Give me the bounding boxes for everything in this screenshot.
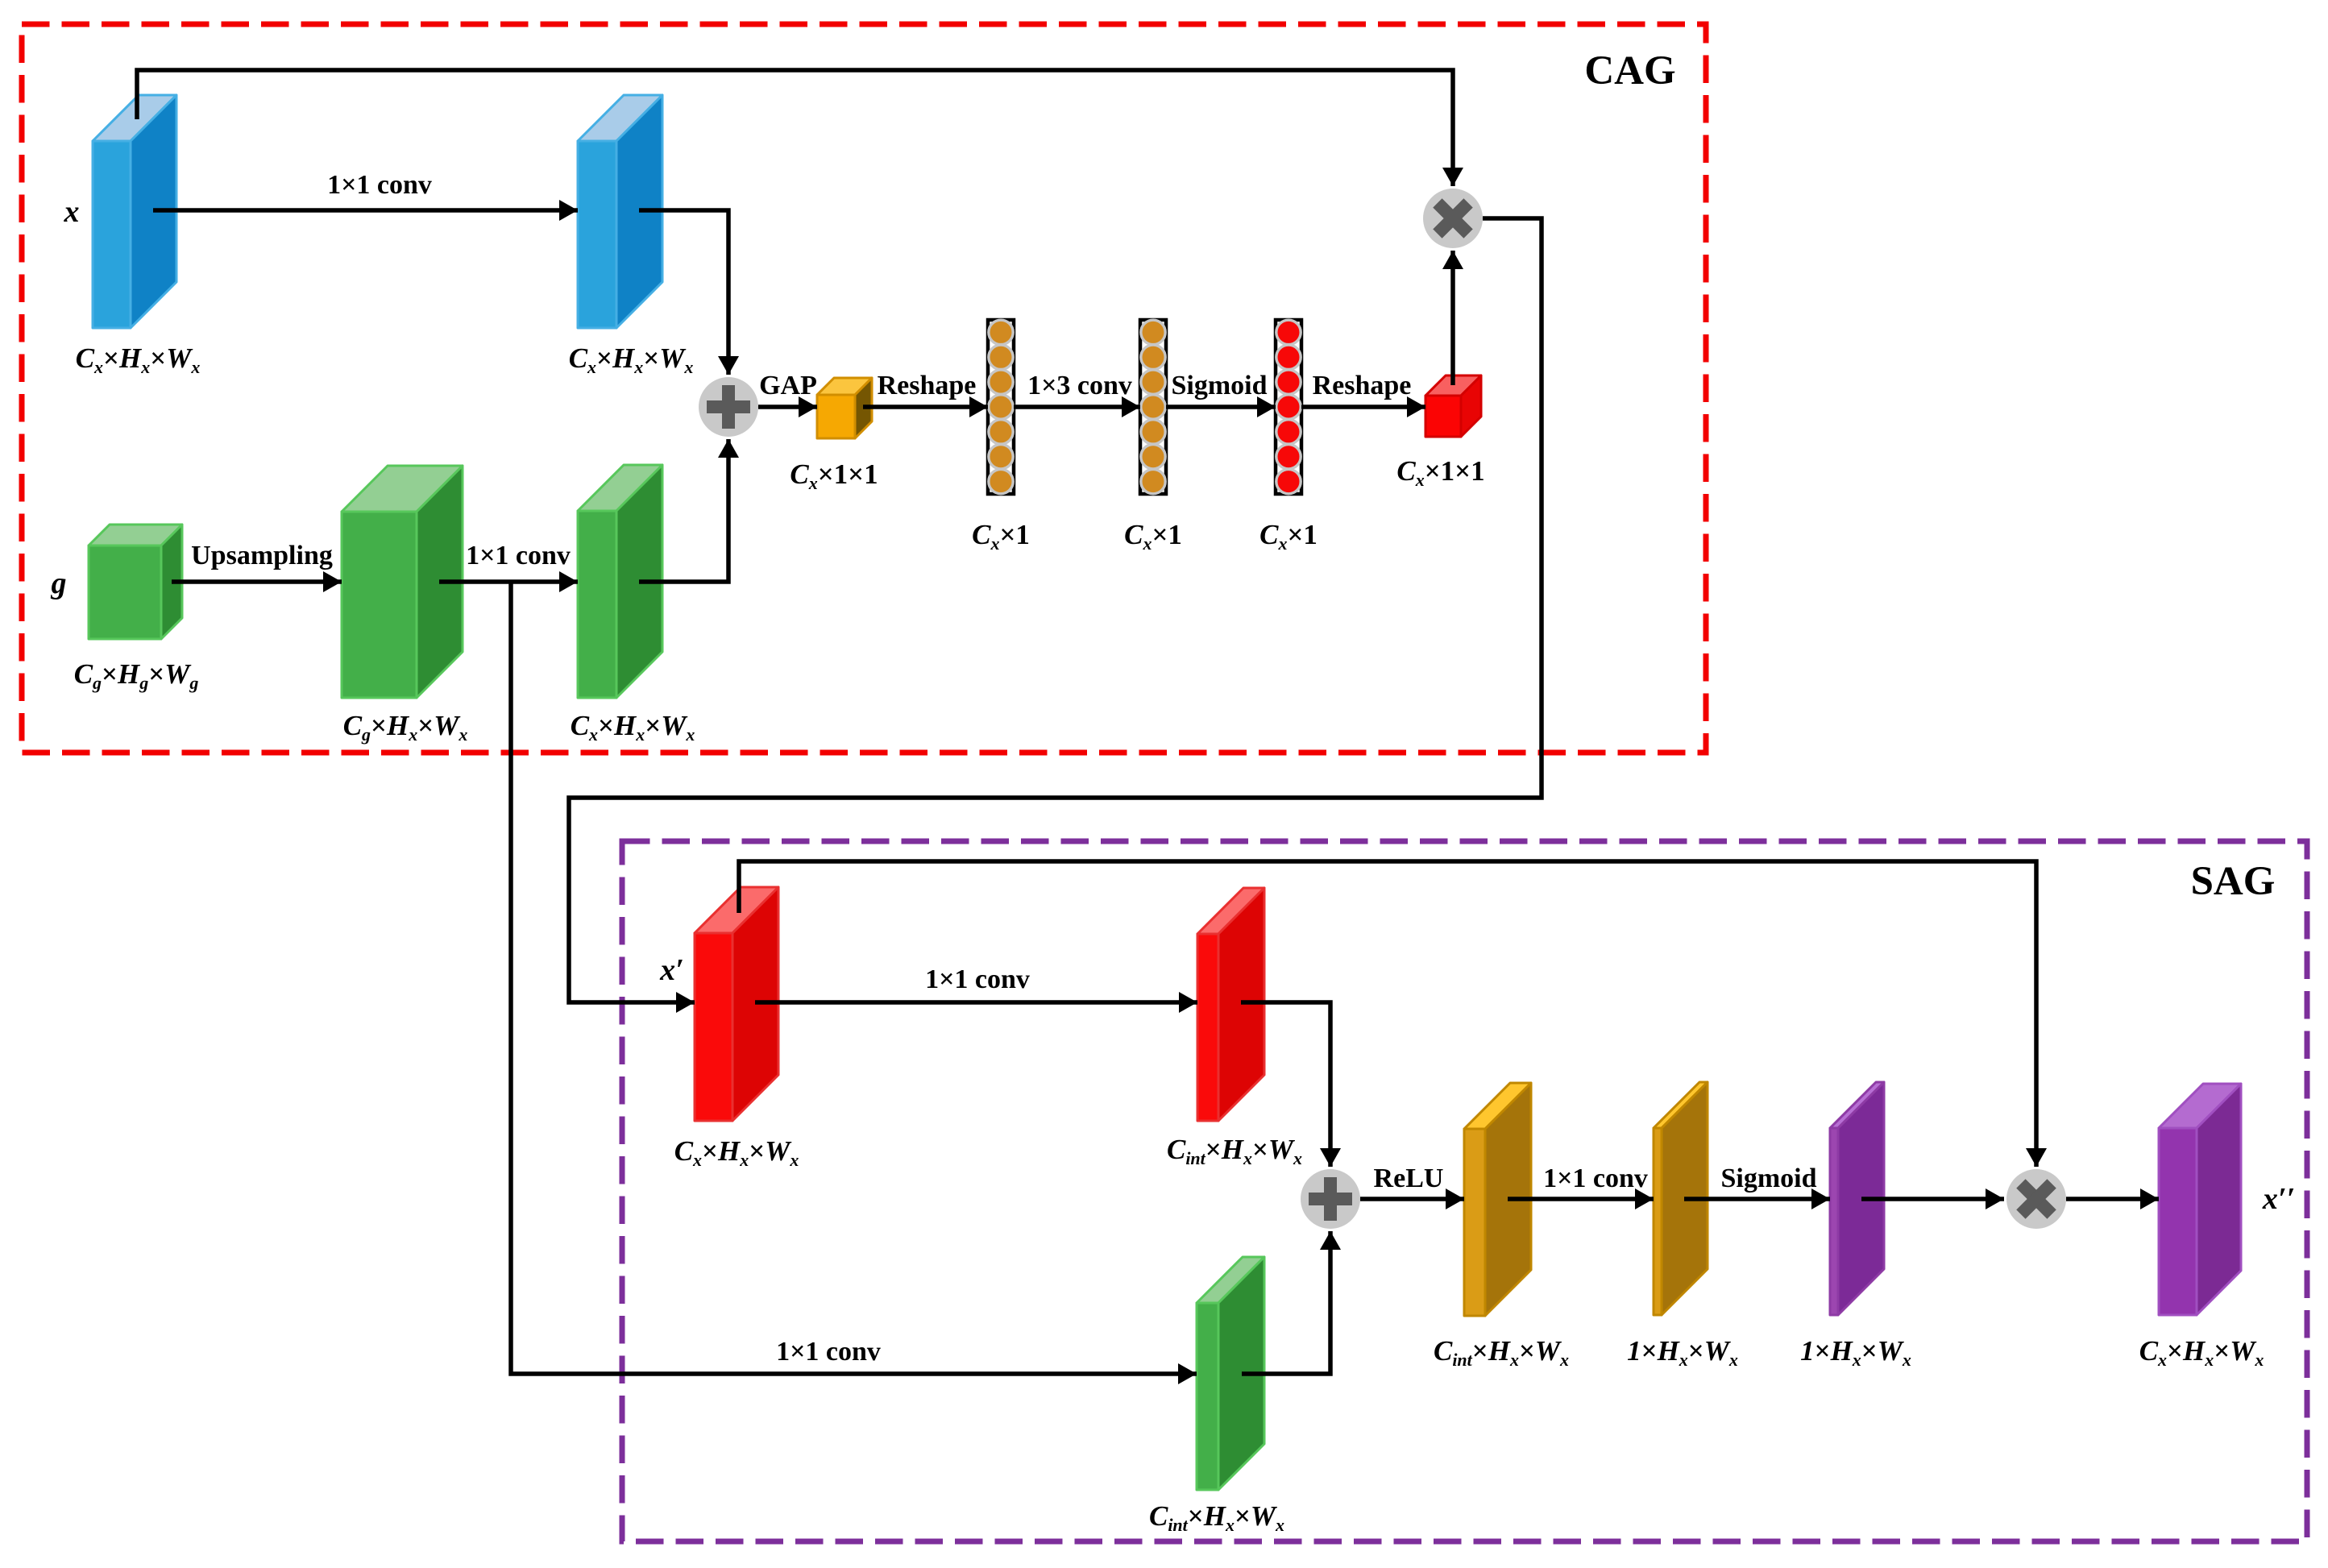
svg-text:1×1 conv: 1×1 conv (327, 170, 432, 200)
svg-text:1×1 conv: 1×1 conv (925, 964, 1030, 994)
tensor x'' (purple, Cx×Hx×Wx) (2159, 1084, 2241, 1315)
wire branch to SAG lower 1×1 conv (511, 582, 1197, 1374)
arrow x' 1×1 conv (755, 1000, 1197, 1005)
svg-text:Cx​×Hx​×Wx​: Cx​×Hx​×Wx​ (569, 342, 694, 377)
svg-text:Sigmoid: Sigmoid (1720, 1164, 1816, 1193)
arrow SAG multiply to x'' (2066, 1197, 2159, 1201)
arrow Reshape 2 (1301, 404, 1425, 409)
green slab Cint×Hx×Wx (SAG) (1197, 1257, 1264, 1490)
arrow Reshape 1 (863, 404, 988, 409)
svg-text:Cg​×Hg​×Wg​: Cg​×Hg​×Wg​ (74, 658, 199, 693)
SAG add junction (+) (1301, 1169, 1360, 1229)
svg-text:Reshape: Reshape (878, 371, 977, 400)
svg-text:GAP: GAP (759, 371, 817, 400)
svg-text:Cx​×1: Cx​×1 (1124, 519, 1182, 554)
wire green Cint slab to SAG add (1242, 1231, 1330, 1374)
svg-text:Cx​×Hx​×Wx​: Cx​×Hx​×Wx​ (674, 1135, 799, 1170)
wire blue slab to CAG add (639, 210, 728, 375)
arrow g Upsampling (172, 579, 342, 584)
green slab Cx×Hx×Wx (after 1×1 conv) (578, 465, 662, 698)
gold slab 1×Hx×Wx (1654, 1082, 1708, 1315)
svg-text:Cx​×1: Cx​×1 (1259, 519, 1318, 554)
svg-text:Reshape: Reshape (1313, 371, 1412, 400)
red cube Cx×1×1 (channel weights) (1425, 375, 1481, 437)
svg-text:1×1 conv: 1×1 conv (466, 541, 571, 570)
arrow Sigmoid (CAG) (1166, 404, 1276, 409)
svg-text:SAG: SAG (2191, 859, 2276, 904)
SAG multiply junction (×) (2006, 1168, 2067, 1230)
blue slab Cx×Hx×Wx (after 1×1 conv) (578, 95, 662, 328)
wire red cube to CAG multiply (1450, 251, 1455, 385)
svg-text:x′′: x′′ (2262, 1182, 2295, 1216)
wire CAG multiply output to x' (569, 218, 1542, 1002)
svg-text:CAG: CAG (1584, 48, 1675, 93)
CAG dashed boundary box (22, 24, 1706, 753)
gold cube Cx×1×1 (GAP output) (817, 378, 872, 438)
svg-text:1×1 conv: 1×1 conv (776, 1337, 881, 1367)
svg-text:1×3 conv: 1×3 conv (1027, 371, 1132, 400)
svg-text:Cx​×1×1: Cx​×1×1 (790, 458, 878, 493)
tensor x' (red, Cx×Hx×Wx) (695, 887, 778, 1121)
arrow 1×1 conv (SAG attention) (1508, 1197, 1654, 1201)
svg-text:1×1 conv: 1×1 conv (1543, 1164, 1648, 1193)
red slab Cint×Hx×Wx (1197, 888, 1264, 1121)
vector Cx×1 (red dots) (1276, 320, 1301, 494)
tensor g (green cube, Cg×Hg×Wg) (89, 525, 182, 639)
SAG dashed boundary box (622, 841, 2307, 1541)
CAG add junction (+) (699, 377, 758, 437)
vector Cx×1 (gold dots 2) (1140, 320, 1166, 494)
wire x-top to CAG multiply (137, 70, 1453, 186)
svg-text:x: x (64, 195, 80, 229)
tensor x (blue, Cx×Hx×Wx) (93, 95, 176, 328)
arrow GAP (758, 404, 817, 409)
svg-text:Cx​×Hx​×Wx​: Cx​×Hx​×Wx​ (76, 342, 201, 377)
arrow ReLU (1360, 1197, 1464, 1201)
wire green slab to CAG add (639, 439, 728, 582)
svg-text:Cx​×1×1: Cx​×1×1 (1396, 455, 1484, 490)
arrow x to 1×1 conv blue slab (153, 208, 578, 213)
svg-text:Cx​×1: Cx​×1 (972, 519, 1030, 554)
green tensor Cg×Hx×Wx (upsampled) (342, 466, 463, 698)
wire red Cint slab to SAG add (1241, 1002, 1330, 1167)
arrow Sigmoid (SAG) (1684, 1197, 1830, 1201)
svg-text:Cx​×Hx​×Wx​: Cx​×Hx​×Wx​ (571, 710, 695, 745)
wire purple slab to SAG multiply (1861, 1197, 2004, 1201)
svg-text:Sigmoid: Sigmoid (1171, 371, 1267, 400)
gold slab Cint×Hx×Wx (1464, 1083, 1531, 1316)
wire x'-top to SAG multiply (739, 861, 2036, 1167)
svg-text:ReLU: ReLU (1374, 1164, 1444, 1193)
svg-text:g: g (51, 566, 67, 600)
svg-text:Upsampling: Upsampling (191, 541, 333, 570)
svg-text:Cg​×Hx​×Wx​: Cg​×Hx​×Wx​ (343, 710, 468, 745)
CAG multiply junction (×) (1422, 188, 1484, 249)
arrow green 1×1 conv (439, 579, 578, 584)
vector Cx×1 (gold dots 1) (988, 320, 1014, 494)
purple slab 1×Hx×Wx (attention map) (1830, 1082, 1884, 1315)
svg-text:x′: x′ (659, 953, 684, 987)
arrow 1×3 conv (1014, 404, 1140, 409)
svg-text:Cx​×Hx​×Wx​: Cx​×Hx​×Wx​ (2139, 1335, 2264, 1370)
